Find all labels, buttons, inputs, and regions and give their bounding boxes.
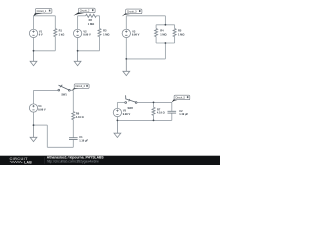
ground C4 (30, 125, 37, 142)
svg-text:R4: R4 (160, 29, 164, 33)
svg-text:1.19 µF: 1.19 µF (79, 138, 88, 142)
svg-text:SW2: SW2 (128, 107, 134, 110)
label C2 (179, 109, 188, 116)
switch SW1 (58, 85, 70, 91)
junction dot C3 loop top (165, 24, 167, 26)
wire left lower C4 (33, 112, 35, 125)
junction dot C5 bottom left (117, 120, 119, 122)
svg-text:1 MΩ: 1 MΩ (103, 32, 109, 36)
label V1 (39, 29, 43, 36)
svg-text:Circuit_3: Circuit_3 (127, 10, 137, 13)
wire top left C5 (117, 101, 124, 103)
voltage source V1 (29, 29, 37, 37)
wire R7 upper C5 (153, 102, 155, 107)
ground C2 (74, 51, 81, 66)
wire stem top C3 (164, 16, 166, 25)
svg-text:1 MΩ: 1 MΩ (88, 22, 94, 26)
voltage source V2 (73, 29, 81, 37)
capacitor C2 (168, 111, 177, 113)
ground C5 (114, 120, 121, 137)
label V3 (132, 29, 140, 36)
resistor R2 (86, 14, 97, 17)
junction dot C5 top (153, 102, 155, 104)
svg-text:R1: R1 (59, 29, 63, 33)
node tag Circuit_2 (73, 8, 95, 15)
resistor R4 (155, 29, 158, 37)
footer background (0, 156, 220, 165)
footer divider (44, 157, 46, 164)
wire bottom C2 (78, 50, 100, 52)
resistor R1 (54, 29, 57, 37)
svg-text:4.19 Ω: 4.19 Ω (76, 115, 84, 119)
voltage source V5 (113, 108, 121, 116)
node tag Circuit_1 (33, 9, 52, 17)
wire top C1 (34, 15, 56, 17)
wire left upper C5 (116, 102, 118, 108)
label R4 (160, 29, 166, 37)
node tag Circuit_4 (72, 84, 89, 91)
svg-text:9.99 V: 9.99 V (83, 33, 91, 37)
wire top left C2 (78, 15, 86, 17)
CircuitLab logo zigzag (10, 161, 23, 163)
svg-text:R5: R5 (178, 29, 182, 33)
resistor R5 (173, 29, 176, 37)
junction dot C3 ground (125, 58, 127, 60)
wire loop left C3 (155, 25, 157, 43)
wire cap upper C5 (171, 102, 173, 111)
wire right mid C4 (72, 120, 74, 138)
junction dot C5 bottom mid (153, 120, 155, 122)
wire loop top C3 (156, 24, 175, 26)
svg-text:Circuit_4: Circuit_4 (75, 85, 85, 88)
wire left upper C3 (125, 16, 127, 29)
svg-text:9.99 V: 9.99 V (38, 107, 46, 111)
label R2 (88, 18, 94, 26)
label C1 (79, 135, 88, 142)
resistor R6 (72, 112, 75, 120)
svg-text:1 MΩ: 1 MΩ (178, 32, 184, 36)
label R5 (178, 29, 184, 37)
wire top right C4 (70, 89, 73, 91)
label R1 (59, 29, 65, 37)
wire top C3 (126, 15, 165, 17)
wire bottom C5 (117, 119, 171, 121)
wire right lower C4 (72, 140, 74, 148)
voltage source V4 (29, 104, 37, 112)
junction dot C1 (33, 50, 35, 52)
wire left upper C4 (33, 90, 35, 104)
svg-text:http://circuitlab.com/c892ygaw: http://circuitlab.com/c892ygaw4w3rw (47, 160, 100, 164)
resistor R3 (98, 29, 101, 37)
wire cap lower C5 (171, 113, 173, 120)
label R3 (103, 29, 109, 37)
svg-text:1 MΩ: 1 MΩ (160, 32, 166, 36)
wire right upper C2 (99, 16, 101, 29)
switch SW2 (125, 95, 137, 103)
wire stem bottom C3 (164, 43, 166, 59)
wire top right C5 (137, 101, 172, 103)
junction dot C4 (33, 124, 35, 126)
wire left lower C3 (125, 38, 127, 59)
node tag Circuit_5 (172, 95, 190, 102)
wire jog C4 (34, 124, 48, 126)
label R6 (76, 112, 84, 119)
svg-text:R2: R2 (89, 18, 93, 22)
svg-text:Circuit_2: Circuit_2 (80, 10, 90, 13)
svg-text:R3: R3 (103, 29, 107, 33)
wire right lower C1 (54, 37, 56, 51)
voltage source V3 (122, 29, 130, 37)
svg-text:SW1: SW1 (61, 94, 67, 97)
wire right upper C1 (54, 16, 56, 29)
capacitor C1 (69, 138, 78, 140)
wire riser C4 (46, 125, 48, 147)
wire R7 lower C5 (153, 115, 155, 120)
junction dot C3 loop bottom (165, 42, 167, 44)
wire loop bottom C3 (156, 42, 175, 44)
svg-text:9.99 V: 9.99 V (123, 112, 131, 116)
wire right upper C4 (72, 90, 74, 111)
wire left upper C1 (33, 16, 35, 29)
svg-text:9 V: 9 V (39, 33, 43, 37)
wire right lower C2 (99, 37, 101, 51)
ground C1 (30, 51, 37, 66)
wire bottom C1 (34, 50, 56, 52)
wire left lower C5 (116, 117, 118, 121)
svg-text:1 kΩ: 1 kΩ (59, 32, 65, 36)
svg-text:Circuit_1: Circuit_1 (37, 10, 47, 13)
resistor R7 (152, 107, 155, 115)
junction dot C2 (77, 50, 79, 52)
wire left upper C2 (77, 16, 79, 29)
svg-text:1.19 µF: 1.19 µF (179, 112, 188, 116)
wire top right C2 (96, 15, 99, 17)
node tag Circuit_3 (122, 9, 142, 16)
label V2 (83, 29, 91, 36)
wire bottom C4 (47, 146, 73, 148)
wire left lower C2 (77, 38, 79, 51)
ground C3 (123, 59, 130, 76)
label V5 (123, 109, 131, 116)
label R7 (157, 107, 165, 114)
svg-text:4.19 Ω: 4.19 Ω (157, 111, 165, 115)
wire bottom C3 (126, 58, 165, 60)
svg-text:LAB: LAB (24, 161, 32, 165)
wire left lower C1 (33, 38, 35, 51)
wire top left C4 (34, 89, 58, 91)
svg-text:Circuit_5: Circuit_5 (175, 97, 185, 100)
svg-text:9.99 V: 9.99 V (132, 33, 140, 37)
wire loop right C3 (174, 25, 176, 43)
label V4 (38, 104, 46, 111)
